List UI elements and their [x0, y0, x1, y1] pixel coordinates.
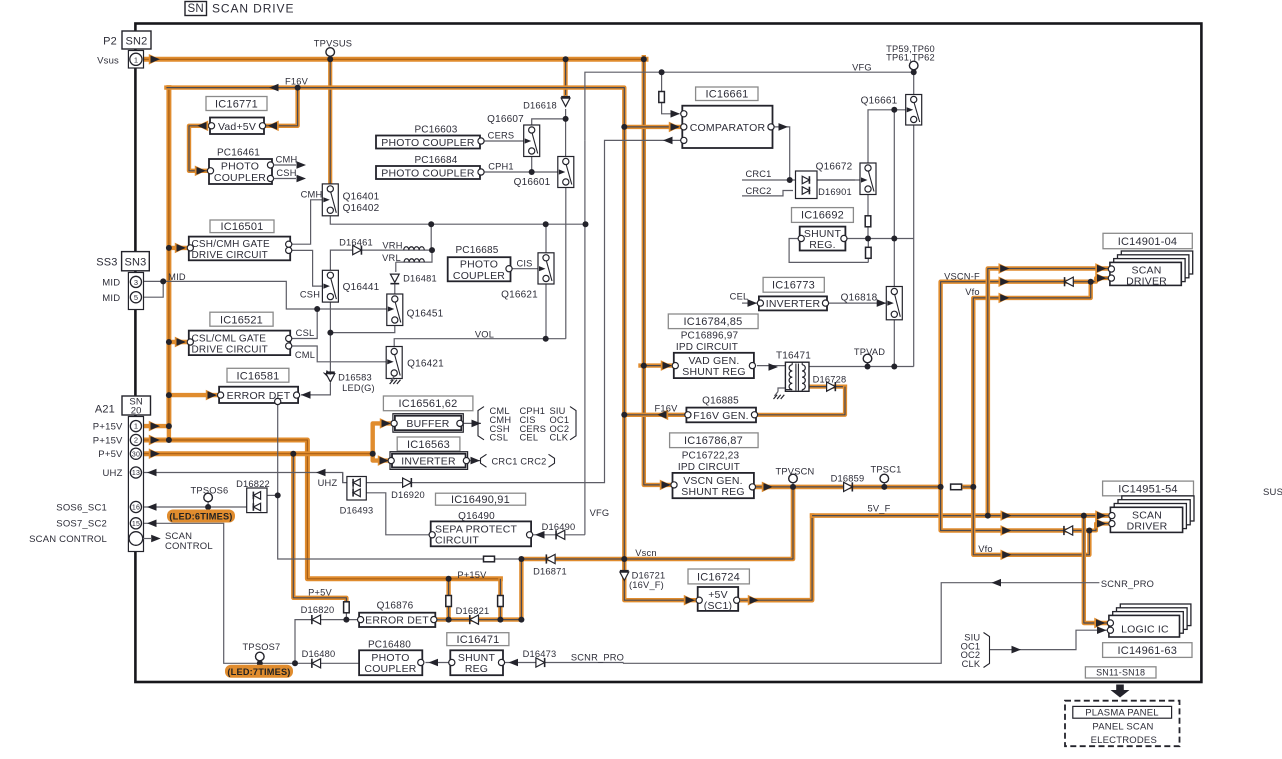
svg-text:CMH: CMH	[301, 190, 323, 200]
svg-text:IPD CIRCUIT: IPD CIRCUIT	[678, 462, 740, 473]
svg-text:MID: MID	[102, 293, 120, 304]
svg-text:IC16490,91: IC16490,91	[451, 494, 510, 506]
svg-text:PC16461: PC16461	[217, 147, 260, 158]
svg-text:CSL: CSL	[490, 433, 509, 443]
svg-text:VRH: VRH	[382, 240, 402, 250]
IC16724 label box	[688, 569, 749, 584]
IC16581 label box	[227, 368, 289, 382]
svg-text:1: 1	[134, 55, 138, 64]
block ERROR DET Q16876	[359, 613, 435, 627]
wire TPVAD line	[809, 366, 914, 368]
wire Vad+5V loop orange	[266, 88, 298, 126]
wire D16822 top diode to error det column	[265, 494, 278, 496]
IC stack SCAN DRIVER top IC14901-04	[1121, 251, 1192, 274]
wire T16471 primary bottom to ground	[778, 388, 785, 392]
block +5V SC1 IC16724	[698, 587, 739, 611]
svg-text:D16583: D16583	[338, 372, 372, 382]
block COMPARATOR IC16661	[682, 106, 772, 148]
wire Q16621 source riser to VOL	[545, 282, 547, 339]
svg-text:ERROR DET: ERROR DET	[365, 614, 429, 626]
svg-text:Q16441: Q16441	[343, 282, 380, 293]
IC16773 label box	[763, 277, 824, 292]
wire VFG resistor branch to comparator pin1	[661, 72, 663, 92]
svg-text:DRIVE CIRCUIT: DRIVE CIRCUIT	[192, 345, 269, 356]
wire CERS line	[484, 140, 524, 142]
wire Vfo bottom row	[973, 487, 1089, 555]
svg-text:CMH: CMH	[276, 155, 298, 165]
svg-text:D16859: D16859	[831, 473, 865, 483]
svg-text:INVERTER: INVERTER	[766, 298, 821, 310]
svg-text:D16820: D16820	[301, 605, 335, 615]
svg-text:Q16401: Q16401	[343, 192, 380, 203]
wire UHZ jog detail	[342, 473, 344, 483]
wire MID net	[142, 281, 388, 309]
label CMH output	[274, 164, 296, 166]
svg-text:CLK: CLK	[962, 659, 981, 669]
wire Vscn line orange	[521, 487, 793, 559]
svg-text:D16821: D16821	[456, 606, 490, 616]
wire bottom scan driver row2	[941, 487, 1090, 531]
ground below Q16421	[391, 377, 395, 382]
svg-text:Q16402: Q16402	[343, 203, 380, 214]
svg-text:D16481: D16481	[403, 273, 437, 283]
wire UHZ net from comparator pin3	[364, 140, 682, 482]
svg-text:Q16421: Q16421	[407, 358, 444, 369]
block BUFFER	[393, 414, 463, 433]
svg-text:CERS: CERS	[488, 131, 515, 141]
svg-text:LED(G): LED(G)	[342, 383, 375, 393]
svg-text:D16473: D16473	[523, 649, 557, 659]
wire inverter output	[468, 460, 481, 462]
wire P+5V to buffer/inverter	[373, 423, 391, 453]
wire Q16672 gate from D16901	[815, 179, 860, 181]
block ERROR DET IC16581	[219, 387, 298, 403]
resistor P15 drop B	[498, 596, 504, 607]
wire error det Q16876 output / D16821 segment	[437, 559, 521, 620]
svg-text:P+5V: P+5V	[308, 588, 332, 598]
svg-text:CIS: CIS	[516, 258, 532, 268]
svg-text:ERROR DET: ERROR DET	[227, 390, 291, 402]
svg-text:15: 15	[132, 521, 140, 528]
svg-text:PANEL SCAN: PANEL SCAN	[1092, 722, 1153, 733]
svg-text:VFG: VFG	[852, 62, 872, 72]
svg-text:Q16607: Q16607	[487, 114, 524, 125]
resistor P+5V to error det node	[344, 602, 350, 613]
svg-text:VSCN-F: VSCN-F	[944, 272, 980, 282]
svg-text:2: 2	[134, 436, 138, 445]
wire VRL line	[396, 224, 432, 262]
ground T16471	[775, 392, 779, 397]
svg-text:CRC1: CRC1	[745, 169, 771, 179]
svg-text:Vad+5V: Vad+5V	[218, 121, 256, 133]
svg-text:Vsus: Vsus	[97, 55, 119, 66]
label SCAN CONTROL right side	[151, 535, 161, 543]
wire TP59 stem and Q16661 drain	[913, 67, 915, 97]
brace CRC1 CRC2	[481, 454, 487, 467]
IC stack SCAN DRIVER bottom IC14951-54	[1122, 496, 1194, 521]
svg-text:IC16561,62: IC16561,62	[399, 398, 458, 410]
svg-text:IC16692: IC16692	[801, 210, 844, 222]
resistor on VFG to comparator	[659, 92, 665, 103]
svg-text:CSH: CSH	[300, 289, 320, 299]
wire q16876 resistor node to box	[346, 613, 359, 620]
svg-text:20: 20	[131, 405, 142, 416]
svg-text:Vscn: Vscn	[635, 548, 656, 558]
svg-text:D16920: D16920	[391, 490, 425, 500]
wire CRC2 line	[742, 191, 793, 196]
svg-text:IC16581: IC16581	[237, 370, 280, 382]
svg-text:SOS7_SC2: SOS7_SC2	[56, 519, 107, 530]
svg-text:Vfo: Vfo	[978, 544, 993, 554]
svg-text:CSL/CML GATE: CSL/CML GATE	[192, 334, 267, 345]
svg-text:IC16773: IC16773	[772, 280, 815, 292]
svg-text:REG.: REG.	[809, 239, 835, 251]
wire VFG vertical to D16490	[584, 140, 586, 534]
block VAD GEN SHUNT REG	[674, 353, 754, 378]
wire Q16451 source to Q16441 column	[330, 323, 394, 333]
highlight LED:6TIMES	[167, 510, 235, 523]
svg-text:D16618: D16618	[523, 100, 557, 110]
wire Q16661 source to TPVAD line	[913, 123, 915, 367]
svg-text:(LED:7TIMES): (LED:7TIMES)	[227, 667, 290, 677]
IC16501 label box	[210, 220, 274, 233]
svg-text:SHUNT REG: SHUNT REG	[682, 366, 745, 378]
svg-text:P+15V: P+15V	[457, 570, 487, 580]
svg-text:IC16521: IC16521	[220, 314, 263, 326]
svg-text:5V_F: 5V_F	[867, 504, 890, 514]
wire TPVAD stem	[867, 363, 869, 367]
svg-text:Q16672: Q16672	[816, 161, 853, 172]
connector P2 SN2	[122, 31, 151, 49]
svg-text:BUFFER: BUFFER	[406, 418, 449, 430]
svg-text:TP61,TP62: TP61,TP62	[886, 53, 935, 63]
svg-text:F16V: F16V	[654, 403, 678, 413]
svg-text:CEL: CEL	[520, 433, 539, 443]
wire Q16441 source down through D16583	[329, 300, 331, 375]
wire VOL line	[394, 339, 566, 352]
wire error det Q16876 right to resistor node	[435, 619, 448, 621]
wire buffer output	[462, 422, 481, 424]
svg-text:UHZ: UHZ	[102, 468, 122, 479]
wire P+5V drop to Q16876	[293, 454, 346, 602]
svg-text:VRL: VRL	[382, 253, 401, 263]
arrow to plasma panel	[1116, 685, 1124, 691]
svg-text:30: 30	[132, 451, 140, 458]
wire CEL stub	[742, 302, 757, 304]
svg-text:DRIVER: DRIVER	[1127, 520, 1168, 532]
svg-text:13: 13	[132, 470, 140, 477]
svg-text:SS3: SS3	[96, 257, 117, 269]
wire VFG top horizontal	[585, 72, 914, 140]
IC16521 label box	[210, 312, 273, 326]
wire Vsus bus orange	[141, 57, 646, 62]
block F16V GEN	[686, 408, 756, 423]
IC16563 label box	[397, 437, 460, 451]
svg-text:PC16480: PC16480	[368, 640, 411, 651]
svg-text:PHOTO: PHOTO	[371, 652, 409, 664]
svg-text:PHOTO COUPLER: PHOTO COUPLER	[381, 168, 475, 180]
title box SN	[185, 2, 207, 16]
svg-text:D16871: D16871	[533, 567, 567, 577]
block INVERTER IC16563	[390, 452, 468, 470]
svg-text:(16V_F): (16V_F)	[629, 580, 664, 590]
connector SS3 SN3	[122, 252, 150, 271]
IC stack LOGIC IC IC14961-63	[1120, 604, 1191, 626]
svg-text:CIRCUIT: CIRCUIT	[435, 534, 479, 546]
wire F16V to comparator	[624, 125, 679, 129]
svg-text:PHOTO: PHOTO	[221, 161, 259, 173]
svg-text:A21: A21	[95, 404, 115, 416]
wire TPSC1 stem	[883, 483, 885, 487]
SN11-SN18 label box	[1085, 667, 1156, 678]
svg-text:VOL: VOL	[475, 329, 494, 339]
svg-text:Q16876: Q16876	[377, 601, 414, 612]
wire photo coupler PC16480 to shunt reg	[425, 662, 450, 664]
svg-text:SOS6_SC1: SOS6_SC1	[56, 502, 107, 513]
svg-text:VFG: VFG	[590, 508, 610, 518]
wire rail to CSH/CMH drive	[169, 246, 187, 250]
svg-text:D16461: D16461	[339, 238, 373, 248]
wire riser 5V_F to top scan driver row1	[988, 269, 1108, 516]
svg-text:IC16501: IC16501	[221, 221, 264, 233]
svg-text:SUS: SUS	[1263, 487, 1282, 498]
wire Q16402 source node y224	[330, 213, 585, 224]
block INVERTER IC16773	[759, 296, 827, 310]
connector A21 SN20	[122, 396, 151, 415]
regulator Vad+5V U IC16771	[210, 118, 264, 135]
wire TPVSUS drop to Q16401	[328, 59, 332, 186]
wire +5V SC1 output to 5V_F riser	[741, 516, 812, 601]
IC16784,85 label box	[668, 314, 758, 329]
svg-text:IC14901-04: IC14901-04	[1118, 236, 1178, 248]
wire pin1 P+15V stub	[142, 424, 169, 428]
highlight LED:7TIMES	[225, 665, 293, 678]
block SHUNT REG IC16692	[800, 227, 846, 251]
svg-text:UHZ: UHZ	[318, 478, 338, 488]
svg-text:PC16896,97: PC16896,97	[681, 331, 739, 342]
test point TPVSUS	[326, 48, 335, 57]
svg-text:PC16684: PC16684	[414, 155, 457, 166]
wire CMH gate wire Q16401	[292, 200, 323, 244]
svg-text:PC16722,23: PC16722,23	[682, 450, 740, 461]
wire Q16672 chain resistor to shunt node	[867, 192, 869, 216]
svg-text:COUPLER: COUPLER	[364, 663, 416, 675]
svg-text:DRIVE CIRCUIT: DRIVE CIRCUIT	[192, 250, 269, 261]
wire T16471 secondary through D16728	[802, 385, 845, 389]
svg-text:PHOTO: PHOTO	[460, 259, 498, 271]
svg-text:P+15V: P+15V	[93, 422, 123, 433]
svg-text:D16721: D16721	[632, 570, 666, 580]
svg-text:IC16724: IC16724	[697, 571, 740, 583]
wire Q16441 drain to VRH line	[330, 250, 432, 272]
svg-text:IC16471: IC16471	[457, 634, 500, 646]
svg-text:(SC1): (SC1)	[704, 600, 732, 612]
IC16771 label box	[206, 97, 267, 111]
wire F16V net orange	[166, 88, 171, 427]
wire SCNR_PRO between shunt and D16473	[505, 662, 507, 664]
dashed box PLASMA PANEL	[1065, 701, 1180, 747]
svg-text:SHUNT: SHUNT	[458, 652, 496, 664]
svg-text:MID: MID	[168, 272, 186, 282]
svg-text:Q16601: Q16601	[514, 177, 551, 188]
dual diode D16901	[796, 171, 818, 199]
diode on row2 bottom	[1064, 526, 1073, 535]
svg-text:SN11-SN18: SN11-SN18	[1096, 667, 1145, 677]
svg-text:PHOTO COUPLER: PHOTO COUPLER	[381, 137, 475, 149]
svg-text:(LED:6TIMES): (LED:6TIMES)	[169, 512, 232, 522]
svg-text:PLASMA PANEL: PLASMA PANEL	[1085, 707, 1159, 718]
main board border frame	[135, 24, 1201, 683]
svg-text:CPH1: CPH1	[488, 161, 514, 171]
svg-text:D16901: D16901	[818, 187, 852, 197]
svg-text:SCAN CONTROL: SCAN CONTROL	[29, 534, 107, 545]
svg-text:IC16771: IC16771	[215, 98, 258, 110]
wire INVERTER IC16773 to Q16818 gate	[829, 302, 887, 304]
wire CML to Q16421 gate	[292, 346, 387, 362]
svg-text:Q16661: Q16661	[861, 95, 898, 106]
block SEPA PROTECT CIRCUIT	[431, 521, 531, 546]
svg-text:CEL: CEL	[730, 292, 749, 302]
svg-text:IC16661: IC16661	[706, 89, 749, 101]
svg-text:PC16603: PC16603	[414, 124, 457, 135]
block CSH/CMH gate drive circuit	[189, 237, 290, 261]
svg-text:SCNR_PRO: SCNR_PRO	[571, 653, 624, 663]
wire Q16607 source to CPH1	[531, 154, 533, 172]
svg-text:IC16786,87: IC16786,87	[684, 435, 743, 447]
IC16471 label box	[447, 633, 509, 646]
svg-text:COUPLER: COUPLER	[214, 172, 266, 184]
svg-text:T16471: T16471	[776, 350, 811, 361]
IC14901-04 label box	[1103, 233, 1192, 248]
svg-text:D16493: D16493	[340, 505, 374, 515]
wire D16493 bottom diode to SEPA	[364, 493, 432, 535]
wire TPVSCN stem	[792, 483, 794, 487]
svg-text:5: 5	[134, 293, 138, 302]
svg-text:P+15V: P+15V	[93, 435, 123, 446]
diode on VSCN-F row top	[1065, 277, 1074, 286]
wire SIU OC1 OC2 CLK brace to logic IC	[989, 630, 1108, 649]
wire CRC1 line	[742, 179, 855, 181]
wire Q16421 source to ground	[393, 376, 395, 380]
svg-text:SHUNT REG: SHUNT REG	[681, 486, 744, 498]
arrows on power pins	[149, 54, 160, 65]
resistor on TPSC1 line	[951, 484, 962, 490]
svg-text:D16480: D16480	[302, 649, 336, 659]
resistor below shunt node	[866, 247, 872, 258]
wire rail to CSL/CML drive	[169, 340, 187, 344]
resistor above shunt node	[865, 216, 871, 227]
svg-text:ELECTRODES: ELECTRODES	[1091, 735, 1157, 746]
svg-text:Q16818: Q16818	[841, 292, 878, 303]
wire D16820 branch	[295, 620, 346, 664]
svg-text:CRC2: CRC2	[745, 186, 771, 196]
svg-text:SCAN DRIVE: SCAN DRIVE	[212, 2, 294, 16]
svg-text:COUPLER: COUPLER	[453, 270, 505, 282]
wire CSL riser to MID line	[292, 309, 318, 339]
wire P+5V bus pin30	[142, 451, 373, 456]
wire P+15V resistor drops	[446, 579, 450, 620]
wire comparator output to CRC1 node	[773, 127, 790, 180]
svg-text:TPSC1: TPSC1	[871, 465, 902, 475]
svg-text:3: 3	[134, 278, 138, 287]
svg-text:SN2: SN2	[126, 35, 148, 47]
svg-text:IC14951-54: IC14951-54	[1118, 483, 1178, 495]
IC14961-63 label box	[1103, 643, 1192, 658]
wire Vsus branch to D16618	[563, 59, 567, 95]
svg-text:IC14961-63: IC14961-63	[1118, 645, 1178, 657]
svg-text:TPVSUS: TPVSUS	[314, 39, 352, 49]
svg-text:CSH/CMH GATE: CSH/CMH GATE	[192, 239, 270, 250]
wire CPH1 line	[484, 171, 558, 173]
wire rail to error det IC16581	[169, 393, 217, 397]
wire Q16661 gate node down to Q16818	[893, 110, 895, 288]
svg-text:DRIVER: DRIVER	[1126, 275, 1167, 287]
wire 5V_F line	[812, 513, 1108, 518]
block SHUNT REG IC16471	[450, 650, 503, 675]
wire shunt reg feedback loop	[846, 238, 914, 240]
svg-text:Q16621: Q16621	[501, 289, 538, 300]
svg-text:CML: CML	[295, 350, 315, 360]
wire Vsus feed to VAD gen	[641, 363, 672, 367]
arrows on scan rows	[998, 263, 1009, 274]
svg-text:SN: SN	[188, 3, 204, 15]
IC16561,62 label box	[383, 396, 473, 411]
svg-text:SN3: SN3	[125, 256, 147, 268]
IC16661 label box	[696, 87, 758, 101]
svg-text:SCNR_PRO: SCNR_PRO	[1101, 579, 1154, 589]
block VSCN GEN SHUNT REG	[673, 473, 754, 498]
svg-text:CLK: CLK	[550, 433, 569, 443]
svg-text:CSH: CSH	[276, 168, 296, 178]
wire error det IC16581 bottom to D16822/Vscn line	[278, 403, 484, 560]
svg-text:TPSOS7: TPSOS7	[243, 642, 281, 652]
svg-text:P+5V: P+5V	[98, 449, 123, 460]
wire Q16818 source down to TPVAD line	[893, 317, 895, 367]
svg-text:16: 16	[132, 505, 140, 512]
IC14951-54 label box	[1103, 481, 1194, 496]
svg-text:IPD CIRCUIT: IPD CIRCUIT	[676, 342, 738, 353]
brace group buffer outputs	[478, 407, 484, 440]
wire logic IC feed	[1084, 516, 1107, 623]
wire Q16621 drain riser	[545, 224, 547, 255]
wire P+15V bus pin2	[142, 440, 501, 579]
wire CSH gate wire Q16441	[292, 250, 323, 286]
svg-text:D16490: D16490	[542, 522, 576, 532]
wire VAD gen output to T16471	[757, 365, 786, 367]
svg-text:Vfo: Vfo	[965, 287, 980, 297]
wire Vfo riser top	[973, 282, 1090, 487]
svg-text:Q16885: Q16885	[702, 396, 739, 407]
svg-text:COMPARATOR: COMPARATOR	[690, 122, 766, 134]
svg-text:F16V GEN.: F16V GEN.	[693, 410, 748, 422]
resistor on Vscn gray segment	[484, 556, 495, 562]
wire F16V gen output to junction	[624, 413, 687, 417]
wire D16618 node to Q16607/Q16601	[565, 109, 567, 162]
wire CIS line	[511, 268, 541, 270]
svg-text:Q16451: Q16451	[407, 308, 444, 319]
wire TPSOS7 stem	[259, 661, 261, 663]
svg-text:IC16784,85: IC16784,85	[684, 316, 743, 328]
svg-text:IC16563: IC16563	[407, 439, 450, 451]
wire VSCN gen output line TPVSCN TPSC1	[756, 485, 941, 490]
IC16786,87 label box	[670, 433, 759, 448]
resistor P15 drop A	[446, 596, 452, 607]
wire D16721 branch to +5V SC1	[624, 559, 694, 600]
wire Q16601 source to VOL riser	[565, 185, 567, 339]
svg-text:F16V: F16V	[285, 77, 309, 87]
svg-text:CONTROL: CONTROL	[165, 541, 213, 552]
IC16490,91 label box	[436, 493, 526, 505]
